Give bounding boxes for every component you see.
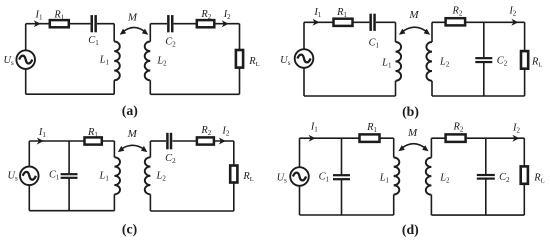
svg-text:(b): (b) [402,104,419,120]
svg-text:M: M [127,128,138,140]
svg-text:(c): (c) [122,221,137,237]
svg-text:M: M [408,9,419,21]
svg-text:(d): (d) [402,222,419,238]
svg-text:(a): (a) [122,103,138,119]
svg-text:M: M [127,12,138,24]
svg-text:M: M [407,127,418,139]
